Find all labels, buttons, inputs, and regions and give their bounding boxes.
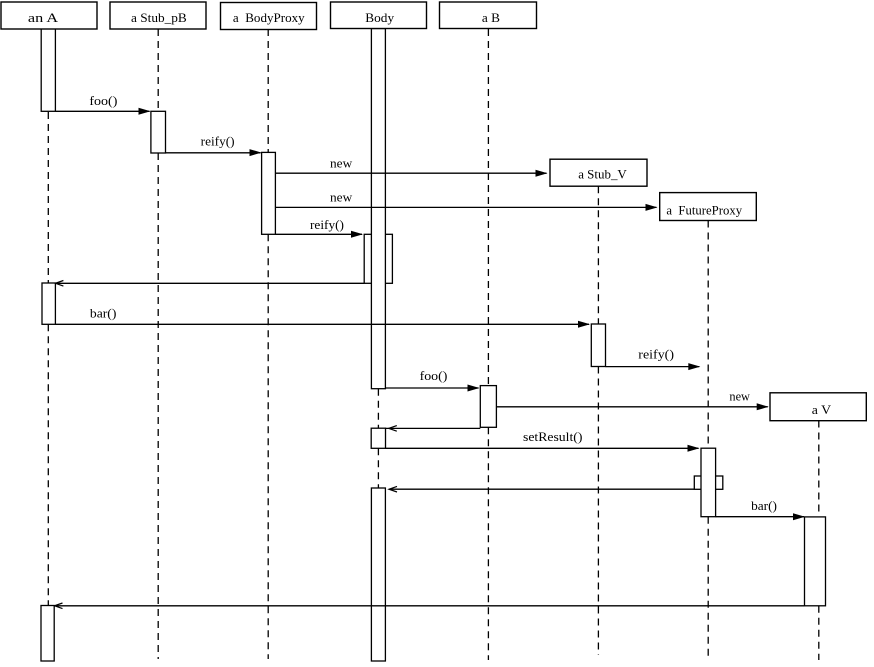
lifeline a V (dashed) — [818, 421, 820, 661]
lifeline a Stub_V (dashed) — [597, 186, 599, 655]
message foo() Body to a B — [385, 368, 479, 392]
object box a Stub_pB — [110, 2, 206, 29]
lifeline a FutureProxy (dashed) — [707, 221, 709, 660]
lifeline a B (dashed) — [487, 29, 489, 660]
message foo() an A to a Stub_pB — [55, 93, 150, 115]
svg-text:reify(): reify() — [310, 217, 344, 232]
activation a BodyProxy — [262, 152, 276, 234]
activation Body nested (wide, under main bar) — [364, 234, 392, 283]
lifeline Body (dashed gaps) — [377, 389, 379, 488]
svg-text:a Stub_V: a Stub_V — [578, 167, 627, 182]
svg-text:an A: an A — [28, 10, 59, 25]
activation FutureProxy nested (wide, under main bar) — [694, 476, 723, 489]
svg-text:reify(): reify() — [638, 346, 674, 361]
activation an A 1 — [41, 29, 55, 112]
lifeline an A (dashed) — [47, 112, 49, 605]
message new BodyProxy to a Stub_V — [275, 156, 547, 177]
message new a B to a V — [496, 389, 768, 411]
svg-text:Body: Body — [365, 10, 394, 25]
return a FutureProxy to Body — [389, 486, 694, 492]
lifeline a BodyProxy (dashed) — [267, 29, 269, 659]
svg-text:bar(): bar() — [751, 498, 777, 513]
svg-text:new: new — [330, 156, 353, 171]
svg-text:new: new — [729, 389, 750, 404]
message bar() a FutureProxy to a V — [716, 498, 805, 520]
lifeline a Stub_pB (dashed) — [157, 29, 159, 659]
svg-text:a V: a V — [812, 402, 832, 417]
svg-text:foo(): foo() — [420, 368, 448, 383]
message setResult() Body to a FutureProxy — [386, 429, 700, 452]
svg-text:a B: a B — [482, 10, 500, 25]
object box a FutureProxy — [660, 193, 757, 221]
activation Body lower — [371, 488, 385, 661]
activation a Stub_V — [591, 324, 605, 367]
object box a B — [440, 2, 537, 29]
activation a B — [480, 386, 496, 428]
activation an A 3 — [41, 606, 54, 662]
activation Body small — [371, 428, 385, 448]
activation an A 2 — [42, 283, 55, 324]
message bar() an A to a Stub_V — [55, 306, 590, 328]
object box an A — [1, 2, 97, 29]
message reify() a Stub_V to a FutureProxy — [606, 346, 701, 370]
svg-text:bar(): bar() — [90, 306, 117, 321]
message reify() a BodyProxy to Body — [275, 217, 363, 238]
activation a V — [805, 517, 826, 606]
message reify() a Stub_pB to a BodyProxy — [166, 134, 262, 157]
svg-text:setResult(): setResult() — [523, 429, 582, 444]
return a V to an A — [55, 603, 805, 609]
return Body to an A — [55, 281, 364, 287]
object box Body — [331, 2, 427, 29]
svg-text:new: new — [330, 190, 353, 205]
object box a Stub_V — [550, 159, 647, 186]
svg-text:reify(): reify() — [201, 134, 235, 149]
svg-text:foo(): foo() — [89, 93, 117, 108]
message new BodyProxy to a FutureProxy — [275, 190, 657, 211]
object box a V — [770, 393, 866, 421]
object box a BodyProxy — [221, 3, 317, 30]
activation Body main — [371, 29, 385, 389]
svg-text:a Stub_pB: a Stub_pB — [131, 10, 187, 25]
return a B to Body — [386, 426, 481, 432]
activation a FutureProxy main — [701, 448, 716, 517]
activation a Stub_pB — [151, 111, 166, 153]
svg-text:a FutureProxy: a FutureProxy — [666, 203, 742, 218]
svg-text:a BodyProxy: a BodyProxy — [233, 10, 305, 25]
